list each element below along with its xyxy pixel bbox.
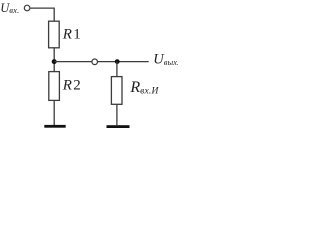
wire load resistor to ground — [116, 104, 118, 125]
svg-text:Uвх.: Uвх. — [0, 1, 19, 15]
wire input terminal to R1 top — [30, 8, 54, 21]
resistor R2 — [49, 72, 60, 101]
svg-text:Uвых.: Uвых. — [153, 51, 178, 67]
resistor R1 — [49, 21, 60, 48]
wire connector to Uvyx — [98, 61, 149, 63]
ground bar under R2 — [44, 125, 65, 128]
junction dot at load branch — [115, 59, 120, 64]
output connector circle — [92, 59, 98, 65]
svg-text:R1: R1 — [62, 27, 81, 43]
junction dot at divider output — [52, 59, 57, 64]
wire R2 bottom to ground — [53, 100, 55, 125]
wire R1 bottom to R2 top — [53, 48, 55, 72]
ground bar under load — [107, 125, 130, 128]
svg-text:Rвх.И: Rвх.И — [129, 79, 159, 96]
input terminal circle — [24, 5, 30, 11]
wire junction to output connector — [54, 61, 91, 63]
svg-text:R2: R2 — [62, 77, 81, 93]
resistor Rvx.I load — [111, 77, 122, 105]
wire junction down to load resistor — [116, 62, 118, 77]
